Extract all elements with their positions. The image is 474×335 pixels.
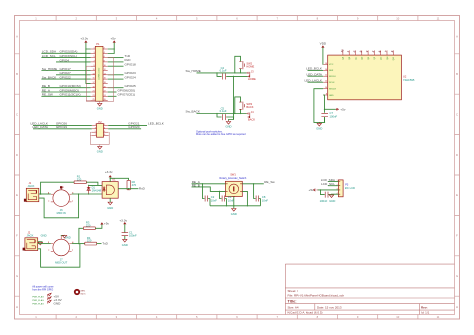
wire R3 to +5v	[95, 224, 102, 228]
svg-text:GND: GND	[65, 236, 71, 240]
svg-text:GPIO11(SCLK): GPIO11(SCLK)	[60, 93, 81, 97]
wire right row1	[108, 124, 147, 126]
svg-text:PWR_FLAG: PWR_FLAG	[32, 295, 44, 298]
svg-text:Sw_HOME: Sw_HOME	[42, 67, 57, 71]
svg-text:+5v: +5v	[309, 188, 315, 192]
svg-text:LCD_SCL: LCD_SCL	[321, 182, 335, 186]
svg-text:LED_BCLK: LED_BCLK	[148, 122, 165, 126]
wire DIN pin4 to R4 junction	[72, 243, 85, 245]
U2 top pin names	[342, 56, 395, 60]
svg-text:2: 2	[104, 48, 105, 50]
junction loop right	[78, 193, 79, 194]
svg-text:GND: GND	[329, 199, 335, 203]
svg-text:CONN_13X2: CONN_13X2	[98, 67, 100, 80]
DIN pin stubs	[51, 186, 72, 202]
svg-text:GND: GND	[226, 125, 232, 129]
wire right row2	[108, 128, 141, 130]
wire pin8 down	[323, 95, 324, 109]
wire down to cap	[321, 190, 332, 195]
ground symbol opto	[108, 202, 112, 205]
wire jack tip to DIN pin5	[38, 243, 51, 245]
svg-text:6: 6	[104, 131, 105, 133]
svg-text:+3.3v: +3.3v	[105, 170, 113, 174]
svg-text:Size: A4: Size: A4	[288, 305, 299, 309]
svg-text:C8: C8	[262, 195, 266, 199]
wire GPIO22 row	[41, 78, 90, 80]
svg-text:12: 12	[325, 81, 327, 83]
junction RE_A cap tap	[202, 183, 203, 184]
encoder knob circle	[229, 184, 239, 194]
GND bracket P1	[86, 58, 113, 104]
svg-text:10: 10	[104, 65, 106, 67]
capacitor C5	[222, 114, 225, 120]
svg-text:BACK: BACK	[246, 105, 253, 109]
svg-text:More can be added to free GPIO: More can be added to free GPIO as requir…	[196, 133, 246, 136]
svg-text:17: 17	[92, 82, 94, 84]
svg-text:QH': QH'	[393, 56, 395, 60]
svg-text:File: RPi-V1-MiniPanel-IOBoard: File: RPi-V1-MiniPanel-IOBoard.kicad_sch	[288, 294, 345, 298]
svg-text:+5v: +5v	[111, 37, 117, 41]
title block	[285, 264, 454, 315]
junction R2 out	[128, 188, 129, 189]
svg-text:KiCad E.D.A. kicad (6.0.5): KiCad E.D.A. kicad (6.0.5)	[288, 311, 323, 315]
svg-text:C3: C3	[228, 195, 232, 199]
wire tip branch up to R1	[41, 182, 75, 194]
wire GPIO7 row right	[108, 95, 117, 97]
wire VDD to pin16	[322, 48, 324, 65]
svg-text:LED_LACLK: LED_LACLK	[304, 78, 322, 82]
svg-text:Id: 1/1: Id: 1/1	[421, 311, 430, 315]
jack J2 contacts	[27, 240, 36, 249]
svg-text:QC: QC	[355, 56, 357, 60]
junction C5	[216, 113, 217, 114]
svg-text:Title:: Title:	[288, 300, 297, 304]
wire vcc to R2	[110, 178, 128, 180]
svg-text:22: 22	[104, 91, 106, 93]
svg-text:HOME: HOME	[246, 65, 254, 69]
connector P3 body	[338, 180, 343, 197]
svg-text:10: 10	[396, 16, 399, 20]
wire GPIO18 row right	[108, 65, 124, 67]
svg-text:PWR_FLAG: PWR_FLAG	[32, 302, 44, 305]
wire GPIO24 row right	[108, 78, 124, 80]
svg-text:9: 9	[94, 65, 95, 67]
svg-text:BACK: BACK	[248, 118, 255, 122]
svg-text:LCD_SCL: LCD_SCL	[42, 54, 56, 58]
capacitor C3	[222, 196, 224, 202]
wire 5v vertical	[108, 43, 115, 54]
svg-text:11: 11	[93, 69, 95, 71]
wire back loop	[235, 97, 241, 114]
svg-text:8: 8	[326, 94, 327, 96]
P1 pin numbers left	[92, 48, 94, 102]
wire encoder sw lower pin	[242, 191, 247, 205]
svg-text:16: 16	[104, 78, 106, 80]
svg-text:+3.3v: +3.3v	[80, 37, 88, 41]
jack J1 body	[26, 188, 39, 201]
wire RE_A	[192, 183, 226, 185]
svg-text:GPIO19: GPIO19	[56, 125, 67, 129]
wire gnd drop from C4	[229, 76, 234, 120]
wire GPIO10 row	[41, 87, 90, 89]
svg-text:3: 3	[94, 52, 95, 54]
svg-text:RE_SW: RE_SW	[42, 93, 53, 97]
svg-text:G: G	[456, 274, 458, 278]
svg-text:10: 10	[396, 315, 399, 319]
DIN top NC square	[60, 186, 62, 188]
junction gnd drop	[233, 76, 234, 77]
svg-text:GND: GND	[231, 212, 237, 216]
svg-text:GPIO4: GPIO4	[60, 58, 70, 62]
resistor R4	[85, 242, 97, 245]
svg-text:10nF: 10nF	[211, 199, 217, 203]
junction home loop	[234, 72, 235, 73]
P3 pin hooks	[338, 182, 340, 195]
svg-text:220: 220	[87, 239, 92, 243]
ground symbol din top	[62, 235, 66, 238]
wire GPIO4 row	[56, 61, 91, 63]
C5 stubs	[217, 114, 234, 120]
svg-text:2: 2	[63, 187, 64, 189]
ground symbol C1	[123, 239, 127, 242]
wire opto output RxD	[118, 187, 138, 190]
svg-text:MH1: MH1	[81, 291, 86, 293]
junction 5v pin2	[114, 48, 115, 49]
jack J1 contacts	[28, 190, 37, 199]
svg-text:M2.5: M2.5	[81, 294, 87, 296]
svg-text:LED_BCLK: LED_BCLK	[306, 67, 323, 71]
svg-text:7: 7	[94, 61, 95, 63]
capacitor C1	[122, 233, 129, 236]
U2 top pin numbers	[340, 48, 395, 53]
junction 3.3v pin1	[85, 48, 86, 49]
GND bracket P2	[90, 132, 109, 146]
svg-text:SRCLR: SRCLR	[329, 89, 337, 91]
C7 stubs	[324, 109, 326, 122]
svg-text:GPIO22: GPIO22	[60, 76, 71, 80]
capacitor C3 drop	[220, 191, 227, 205]
DIN socket MIDI OUT circle	[53, 239, 70, 256]
svg-text:1: 1	[95, 124, 96, 126]
svg-text:GND: GND	[107, 206, 113, 210]
svg-text:14: 14	[104, 73, 106, 75]
wire GPIO11 row	[41, 95, 90, 97]
ground symbol encoder	[232, 209, 236, 212]
junction D1 top	[88, 185, 89, 186]
svg-text:SRCLK: SRCLK	[329, 76, 337, 78]
DIN out pin crosses	[48, 241, 74, 252]
svg-text:P2: P2	[98, 120, 102, 124]
svg-text:7: 7	[95, 134, 96, 136]
svg-text:4: 4	[104, 52, 105, 54]
jack J2 sleeve block	[23, 248, 26, 251]
svg-text:+5v: +5v	[104, 221, 110, 225]
capacitor C4	[222, 74, 225, 80]
resistor R3	[84, 227, 96, 230]
U2 left pin stubs	[323, 64, 328, 95]
svg-text:H: H	[456, 305, 458, 309]
svg-text:11: 11	[437, 16, 440, 20]
junction pin8/C7	[324, 109, 325, 110]
wire GPIO3 row	[41, 57, 90, 59]
junction RE_B cap tap	[219, 191, 220, 192]
wire LCD_SCL	[328, 185, 338, 187]
switch SW2	[239, 61, 244, 69]
svg-text:19: 19	[92, 86, 94, 88]
svg-text:GND: GND	[41, 234, 47, 238]
svg-text:G: G	[16, 274, 18, 278]
C1 stubs	[124, 236, 126, 239]
P2 pin stubs left	[92, 125, 97, 135]
svg-text:Date: 15 nov 2013: Date: 15 nov 2013	[317, 305, 342, 309]
svg-text:16: 16	[325, 63, 327, 65]
junction C4	[216, 72, 217, 73]
P1 pin numbers right	[104, 48, 106, 102]
wire vcc into opto	[109, 177, 111, 181]
svg-text:13: 13	[92, 73, 94, 75]
svg-text:4: 4	[104, 127, 105, 129]
wire GPIO23 row right	[108, 74, 124, 76]
svg-text:3: 3	[95, 127, 96, 129]
jack J1 sleeve block	[24, 199, 27, 202]
svg-text:GND: GND	[329, 95, 334, 97]
encoder SW1 body	[225, 181, 242, 196]
resistor R1	[74, 181, 86, 184]
mounting hole MH1	[75, 290, 79, 294]
svg-text:8: 8	[104, 134, 105, 136]
ground symbol LCD	[329, 195, 333, 198]
capacitor C7	[321, 113, 328, 116]
svg-text:E: E	[456, 193, 458, 197]
encoder knob bar	[233, 186, 234, 191]
wire RE_B	[192, 187, 226, 192]
svg-text:1N4148: 1N4148	[92, 188, 102, 192]
wire 3.3v vertical	[86, 43, 91, 84]
svg-text:VCC: VCC	[329, 64, 334, 66]
wire R4 to TxD	[97, 243, 102, 245]
svg-text:B: B	[456, 72, 458, 76]
svg-text:6: 6	[104, 56, 105, 58]
wire shield loop	[39, 194, 79, 218]
svg-text:C2: C2	[211, 195, 215, 199]
opto LED symbol	[103, 186, 105, 192]
svg-text:24: 24	[104, 95, 106, 97]
svg-text:RxD: RxD	[139, 187, 146, 191]
wire pin4 to gnd	[332, 193, 339, 195]
svg-text:H: H	[16, 305, 18, 309]
svg-text:11: 11	[325, 75, 327, 77]
ground symbol P2	[98, 146, 102, 149]
wire jack tip to DIN pin4	[39, 193, 51, 195]
svg-text:JACK: JACK	[27, 233, 34, 237]
svg-text:5: 5	[95, 131, 96, 133]
svg-text:26: 26	[104, 99, 106, 101]
svg-text:LED_DATA: LED_DATA	[32, 125, 48, 129]
svg-text:GPIO18: GPIO18	[125, 63, 136, 67]
junction D1 bottom	[88, 193, 89, 194]
capacitor C8	[256, 196, 258, 202]
wire +3.3v to C1	[124, 224, 126, 232]
wire GPIO17 row	[41, 70, 90, 72]
svg-text:GND: GND	[97, 150, 103, 154]
junction tip	[40, 193, 42, 195]
svg-text:VDD: VDD	[320, 42, 327, 46]
power +5v arrow right	[336, 108, 339, 110]
svg-text:74HC595: 74HC595	[403, 78, 415, 82]
svg-text:10nF: 10nF	[262, 199, 268, 203]
svg-text:RE_Sw: RE_Sw	[264, 180, 275, 184]
svg-text:+3.3v: +3.3v	[119, 219, 127, 223]
ground symbol P1	[98, 103, 102, 106]
svg-text:GND: GND	[316, 126, 322, 130]
wire to +5v arrow	[325, 108, 336, 110]
wire pin10 to gnd rail	[314, 89, 325, 123]
svg-text:10: 10	[325, 87, 327, 89]
ground symbol switches	[226, 121, 230, 125]
svg-text:GPIO7(CE1): GPIO7(CE1)	[118, 93, 136, 97]
svg-text:SER: SER	[329, 70, 334, 72]
svg-text:+5v: +5v	[340, 107, 346, 111]
power +5v symbol top right	[113, 41, 115, 43]
capacitor C6	[325, 192, 328, 198]
svg-text:15: 15	[92, 78, 94, 80]
svg-text:Sheet: /: Sheet: /	[288, 289, 299, 293]
connector J3 pins	[247, 72, 250, 78]
svg-text:2: 2	[104, 124, 105, 126]
svg-text:I2C LCD: I2C LCD	[345, 186, 355, 190]
P2 pin stubs right	[104, 125, 109, 135]
svg-text:U2: U2	[403, 74, 407, 78]
svg-text:HOME: HOME	[248, 77, 256, 81]
svg-text:Sw_BACK: Sw_BACK	[42, 75, 57, 79]
wire +5v to pin3	[318, 189, 339, 191]
svg-text:GND: GND	[54, 301, 62, 305]
svg-text:220: 220	[86, 223, 91, 227]
ground symbol U2	[317, 122, 321, 126]
P1 pin stubs left	[91, 49, 96, 101]
svg-text:23: 23	[92, 95, 94, 97]
junction gnd rail	[324, 122, 325, 123]
svg-text:C7: C7	[330, 111, 334, 115]
svg-text:5: 5	[94, 56, 95, 58]
power VDD symbol	[322, 46, 324, 48]
wire DIN pin5 to opto pin2	[72, 193, 102, 195]
encoder contacts	[225, 184, 242, 197]
P3 pin numbers	[337, 180, 338, 195]
wire Sw_BACK	[197, 113, 247, 115]
power +3.3v C1	[124, 223, 126, 225]
svg-text:D: D	[456, 153, 458, 157]
junction RE_SW cap tap	[253, 183, 254, 184]
wire LCD_SDA	[328, 181, 338, 183]
connector P1 body	[95, 46, 103, 101]
svg-text:100nF: 100nF	[129, 234, 137, 238]
wire Sw_HOME	[197, 72, 247, 74]
svg-text:220: 220	[77, 177, 82, 181]
wire ground bus	[210, 197, 261, 209]
junction R3 branch	[78, 243, 79, 244]
wire GPIO9 row	[41, 91, 90, 93]
wire shield loop out	[38, 244, 80, 268]
svg-text:8: 8	[104, 61, 105, 63]
power +5v arrow midi	[101, 223, 103, 225]
DIN out pin stubs	[51, 236, 72, 252]
power +3.3v opto	[109, 176, 111, 178]
capacitor C2 drop	[203, 184, 211, 206]
power +5v arrow left	[313, 189, 317, 191]
svg-text:C: C	[16, 112, 18, 116]
svg-text:MIDI IN: MIDI IN	[57, 211, 66, 215]
svg-text:Rev:: Rev:	[421, 305, 428, 309]
svg-text:100nF: 100nF	[320, 199, 328, 203]
DIN socket U3 circle	[53, 190, 70, 207]
svg-text:E: E	[16, 193, 18, 197]
wire GPIO27 row	[56, 74, 91, 76]
svg-text:SW1: SW1	[230, 173, 236, 177]
wire LED_LACLK	[308, 81, 324, 83]
DIN pin crosses	[48, 187, 74, 202]
svg-text:1: 1	[94, 48, 95, 50]
svg-text:Rotary_Encoder_Switch: Rotary_Encoder_Switch	[220, 177, 247, 180]
junctions ground bus	[226, 205, 227, 206]
svg-text:12: 12	[104, 69, 106, 71]
svg-text:100nF: 100nF	[330, 115, 338, 119]
svg-text:RCLK: RCLK	[329, 82, 335, 84]
switch SW3	[239, 102, 244, 110]
opto U1 body	[102, 182, 118, 199]
wire RxD row right	[108, 61, 124, 63]
svg-text:QD: QD	[362, 56, 364, 60]
svg-text:18: 18	[104, 82, 106, 84]
U2 left pin names	[329, 64, 337, 97]
wire GPIO2 row	[41, 52, 90, 54]
wire LED_BCLK	[308, 69, 324, 71]
svg-text:0.1uF: 0.1uF	[220, 69, 227, 73]
svg-text:14: 14	[325, 69, 327, 71]
svg-text:P1: P1	[96, 42, 100, 46]
wire up to R3	[79, 228, 84, 243]
wire TxD row right	[108, 57, 124, 59]
connector P2 body	[97, 124, 104, 138]
svg-text:0.1uF: 0.1uF	[220, 109, 227, 113]
svg-text:GND: GND	[97, 106, 103, 110]
jack ring gnd stub	[38, 241, 43, 243]
junction cap tap	[320, 189, 321, 190]
jack J2 body	[25, 238, 38, 251]
svg-text:MIDI OUT: MIDI OUT	[55, 261, 67, 265]
capacitor C8 drop	[254, 184, 261, 206]
ground symbol jack	[38, 242, 42, 245]
power +3.3v symbol top left	[85, 41, 87, 43]
svg-text:A: A	[456, 35, 458, 39]
capacitor C2	[205, 196, 207, 202]
svg-text:470: 470	[132, 183, 137, 187]
svg-text:QH: QH	[387, 56, 389, 60]
wire LED_LACLK row	[33, 124, 92, 126]
diode D1	[87, 185, 90, 193]
connector J4 pins	[247, 113, 250, 119]
svg-text:GPIO20: GPIO20	[128, 125, 139, 129]
svg-text:25: 25	[92, 99, 94, 101]
wire R1 to opto pin1	[86, 182, 102, 185]
wire home loop	[235, 56, 241, 73]
resistor R2	[127, 180, 130, 189]
P1 pin stubs right	[103, 49, 108, 101]
svg-text:B: B	[16, 72, 18, 76]
wire LED_DATA row	[33, 128, 92, 130]
svg-text:from the RPi GPIO: from the RPi GPIO	[32, 288, 53, 291]
svg-text:C: C	[456, 112, 458, 116]
